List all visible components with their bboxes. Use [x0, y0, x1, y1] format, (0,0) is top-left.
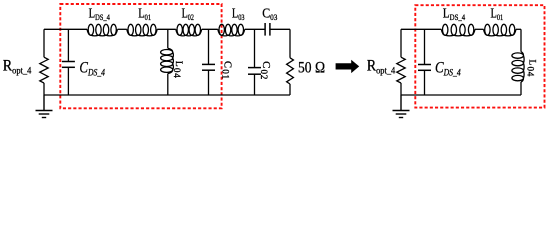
- inductor L_DS_4 (left): [87, 24, 118, 36]
- wire: right top bus L_01 to corner: [516, 28, 521, 30]
- ground (left circuit): [36, 95, 53, 118]
- svg-text:L01: L01: [138, 6, 151, 22]
- capacitor C_DS_4 (left): [62, 29, 75, 95]
- svg-text:C02: C02: [259, 61, 271, 80]
- wire: right top bus L_DS_4 to L_01: [475, 28, 484, 30]
- wire: top bus L_01 to node of L_04: [157, 28, 176, 30]
- capacitor C_01 (shunt): [202, 29, 215, 95]
- svg-text:L04: L04: [172, 61, 183, 79]
- wire: left circuit top bus (R_opt node to L_DS_4): [44, 28, 87, 30]
- inductor L_01 (right): [484, 24, 517, 36]
- svg-text:L02: L02: [182, 6, 194, 22]
- dashed box around left matching network: [60, 4, 221, 108]
- inductor L_DS_4 (right): [441, 24, 475, 36]
- inductor L_02: [176, 24, 202, 36]
- resistor R_opt_4 (right): [400, 29, 402, 57]
- resistor 50 ohm load: [289, 29, 291, 58]
- svg-text:Ropt_4: Ropt_4: [3, 58, 32, 77]
- wire: top bus L_03 to C_03: [245, 28, 265, 30]
- resistor R_opt_4 (left): [43, 29, 45, 57]
- wire: top bus L_02 to node of C_01: [202, 28, 218, 30]
- svg-text:L04: L04: [526, 60, 537, 78]
- dashed box around right simplified network: [415, 5, 544, 107]
- ground (right circuit): [393, 95, 410, 118]
- inductor L_04 (right): [520, 29, 522, 51]
- wire: right circuit top bus (R_opt node to L_DS_4): [401, 28, 441, 30]
- wire: left circuit bottom bus: [44, 94, 290, 96]
- capacitor C_03 (series): [265, 23, 270, 36]
- svg-text:CDS_4: CDS_4: [79, 60, 105, 79]
- wire: top bus L_DS_4 to L_01: [118, 28, 127, 30]
- capacitor C_DS_4 (right): [418, 29, 431, 95]
- svg-text:LDS_4: LDS_4: [89, 6, 111, 22]
- svg-text:L03: L03: [232, 6, 245, 22]
- svg-text:50 Ω: 50 Ω: [298, 59, 325, 76]
- arrow (network transformation): [336, 60, 360, 73]
- inductor L_04 (left shunt): [167, 29, 169, 48]
- wire: right circuit bottom bus: [401, 94, 521, 96]
- svg-text:C03: C03: [262, 6, 277, 22]
- capacitor C_02 (shunt): [248, 29, 261, 95]
- wire: top bus C_03 to 50 ohm load corner: [270, 28, 290, 30]
- svg-text:Ropt_4: Ropt_4: [367, 58, 396, 77]
- svg-text:LDS_4: LDS_4: [443, 6, 466, 22]
- inductor L_03: [218, 24, 245, 36]
- svg-text:L01: L01: [491, 6, 504, 22]
- inductor L_01 (left): [127, 24, 157, 36]
- svg-text:C01: C01: [221, 61, 233, 80]
- svg-text:CDS_4: CDS_4: [435, 60, 461, 79]
